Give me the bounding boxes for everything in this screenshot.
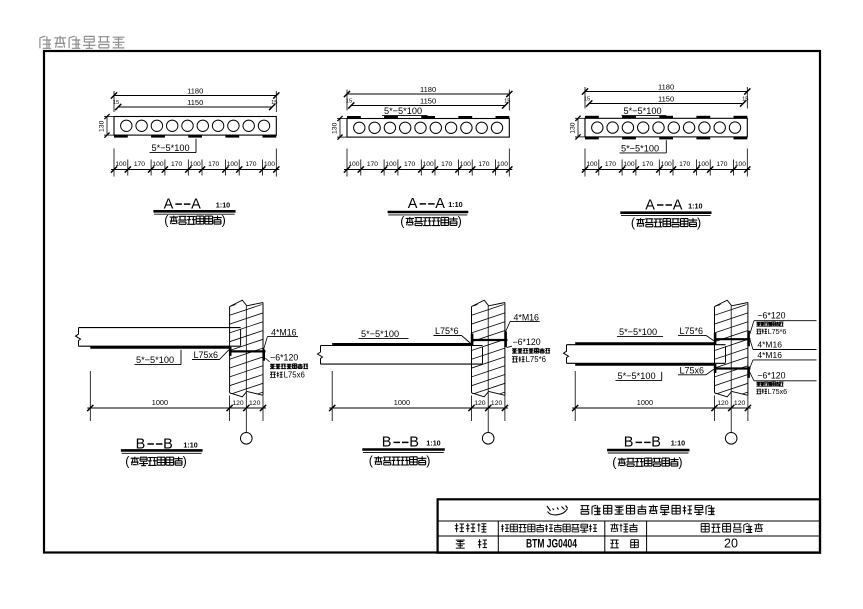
svg-text:170: 170 — [716, 161, 727, 168]
svg-text:120: 120 — [717, 400, 729, 407]
svg-text:100: 100 — [115, 161, 126, 168]
svg-text:100: 100 — [227, 161, 238, 168]
svg-text:100: 100 — [385, 161, 396, 168]
svg-text:−6*120: −6*120 — [513, 337, 541, 347]
svg-text:20: 20 — [724, 537, 738, 551]
svg-text:120: 120 — [491, 400, 503, 407]
svg-text:100: 100 — [190, 161, 201, 168]
svg-text:4*M16: 4*M16 — [757, 339, 782, 349]
svg-text:A: A — [435, 196, 445, 212]
svg-text:100: 100 — [586, 161, 597, 168]
svg-text:B: B — [624, 435, 634, 451]
svg-text:4*M16: 4*M16 — [757, 350, 782, 360]
svg-text:1000: 1000 — [637, 398, 653, 407]
svg-text:5*−5*100: 5*−5*100 — [619, 327, 657, 337]
svg-text:5*−5*100: 5*−5*100 — [136, 355, 174, 365]
svg-text:170: 170 — [441, 161, 452, 168]
svg-text:170: 170 — [642, 161, 653, 168]
svg-text:5*−5*100: 5*−5*100 — [621, 143, 659, 153]
svg-text:100: 100 — [152, 161, 163, 168]
svg-text:B: B — [651, 435, 661, 451]
svg-text:L75x6: L75x6 — [284, 370, 305, 379]
svg-text:170: 170 — [367, 161, 378, 168]
svg-text:100: 100 — [460, 161, 471, 168]
svg-text:L75*6: L75*6 — [435, 326, 459, 336]
svg-text:): ) — [678, 455, 682, 469]
svg-text:130: 130 — [332, 122, 339, 134]
svg-text:): ) — [426, 454, 430, 468]
svg-text:170: 170 — [208, 161, 219, 168]
svg-text:4*M16: 4*M16 — [514, 312, 540, 322]
svg-text:BTM JG0404: BTM JG0404 — [526, 536, 577, 550]
svg-text:1180: 1180 — [420, 85, 436, 94]
svg-text:5*−5*100: 5*−5*100 — [152, 143, 190, 153]
svg-text:1:10: 1:10 — [448, 200, 462, 209]
svg-text:): ) — [458, 215, 462, 229]
svg-text:A: A — [645, 197, 655, 213]
svg-text:1150: 1150 — [658, 94, 674, 103]
svg-text:5*−5*100: 5*−5*100 — [618, 371, 656, 381]
svg-text:170: 170 — [478, 161, 489, 168]
svg-text:170: 170 — [679, 161, 690, 168]
svg-text:100: 100 — [735, 161, 746, 168]
svg-text:L75x6: L75x6 — [680, 366, 705, 376]
svg-text:5*−5*100: 5*−5*100 — [384, 106, 422, 116]
svg-text:100: 100 — [497, 161, 508, 168]
svg-text:170: 170 — [171, 161, 182, 168]
svg-text:100: 100 — [264, 161, 275, 168]
svg-text:5*−5*100: 5*−5*100 — [624, 106, 662, 116]
svg-text:1:10: 1:10 — [183, 440, 197, 449]
svg-text:120: 120 — [249, 400, 261, 407]
svg-text:120: 120 — [734, 400, 746, 407]
svg-text:170: 170 — [404, 161, 415, 168]
svg-text:A: A — [408, 196, 418, 212]
svg-text:170: 170 — [605, 161, 616, 168]
svg-text:100: 100 — [661, 161, 672, 168]
svg-text:−6*120: −6*120 — [757, 371, 785, 381]
svg-text:−6*120: −6*120 — [270, 353, 298, 363]
svg-text:): ) — [222, 213, 226, 227]
svg-text:1150: 1150 — [187, 98, 203, 107]
svg-text:1:10: 1:10 — [216, 200, 230, 209]
svg-text:L75*6: L75*6 — [768, 327, 787, 336]
svg-text:1:10: 1:10 — [671, 439, 685, 448]
svg-text:130: 130 — [99, 120, 106, 132]
svg-text:1:10: 1:10 — [688, 201, 702, 210]
svg-text:120: 120 — [232, 400, 244, 407]
svg-text:1180: 1180 — [658, 82, 674, 91]
svg-text:1:10: 1:10 — [426, 439, 440, 448]
svg-text:120: 120 — [474, 400, 486, 407]
svg-text:100: 100 — [423, 161, 434, 168]
svg-text:100: 100 — [348, 161, 359, 168]
svg-text:L75x6: L75x6 — [194, 350, 219, 360]
svg-text:1000: 1000 — [152, 398, 168, 407]
svg-text:100: 100 — [698, 161, 709, 168]
svg-text:170: 170 — [245, 161, 256, 168]
svg-text:170: 170 — [134, 161, 145, 168]
svg-text:1180: 1180 — [187, 86, 203, 95]
svg-text:100: 100 — [623, 161, 634, 168]
svg-text:): ) — [183, 454, 187, 468]
svg-text:L75x6: L75x6 — [768, 387, 788, 396]
svg-text:A: A — [673, 197, 683, 213]
svg-text:130: 130 — [570, 122, 577, 134]
svg-text:L75*6: L75*6 — [526, 355, 546, 364]
svg-text:1150: 1150 — [420, 96, 436, 105]
svg-text:): ) — [697, 216, 701, 230]
svg-text:1000: 1000 — [394, 398, 410, 407]
svg-text:−6*120: −6*120 — [757, 311, 785, 321]
svg-text:4*M16: 4*M16 — [271, 328, 297, 338]
svg-text:L75*6: L75*6 — [680, 326, 704, 336]
svg-text:5*−5*100: 5*−5*100 — [361, 329, 399, 339]
